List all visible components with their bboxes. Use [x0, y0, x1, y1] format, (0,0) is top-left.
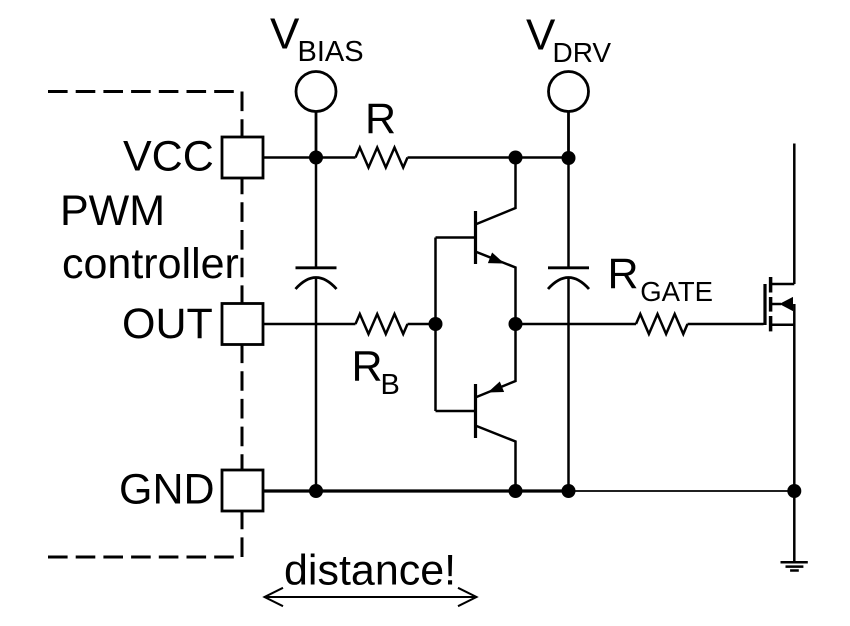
mosfet M1 body lead	[771, 303, 781, 306]
node dot VDRV rail	[562, 151, 576, 165]
capacitor C2	[548, 268, 589, 289]
resistor R	[356, 148, 408, 168]
svg-text:PWM: PWM	[60, 187, 165, 235]
transistor Q1 emitter arrow	[489, 253, 503, 263]
resistor RGATE	[636, 314, 688, 334]
wire GND rail thin	[569, 490, 795, 492]
wire driver output	[516, 323, 637, 326]
mosfet M1 source connector	[771, 324, 794, 327]
wire OUT rail	[263, 323, 356, 326]
distance arrow	[264, 588, 477, 606]
wire base bus	[436, 238, 476, 412]
wire VBIAS stem	[315, 112, 318, 158]
svg-text:DRV: DRV	[553, 37, 612, 68]
wire source	[793, 304, 796, 491]
svg-text:V: V	[270, 10, 300, 59]
wire VBIAS cap top	[315, 158, 318, 268]
svg-text:BIAS: BIAS	[298, 36, 364, 68]
wire RB to base node	[408, 323, 437, 326]
wire RGATE to gate	[688, 323, 764, 326]
wire VDRV cap bottom	[567, 278, 570, 491]
mosfet M1 body arrow	[781, 298, 793, 311]
svg-text:controller: controller	[62, 240, 239, 288]
svg-text:R: R	[608, 250, 639, 298]
svg-text:GATE: GATE	[640, 276, 713, 307]
transistor Q2 emitter	[477, 324, 516, 397]
transistor Q2 emitter arrow	[489, 382, 503, 392]
pin GND square	[222, 470, 263, 511]
node dot GND cap1	[309, 484, 323, 498]
pin OUT square	[222, 304, 263, 345]
svg-text:distance!: distance!	[284, 547, 456, 595]
node dot GND cap2	[562, 484, 576, 498]
transistor Q1 collector	[477, 158, 516, 225]
wire VCC rail right	[408, 156, 569, 159]
svg-text:R: R	[352, 343, 383, 391]
node dot GND collector	[509, 484, 523, 498]
node dot VBIAS/VCC	[309, 151, 323, 165]
mosfet M1 gate bar	[763, 284, 766, 325]
transistor Q2 collector	[477, 426, 516, 491]
wire VCC rail left	[263, 156, 356, 159]
node dot collector rail	[509, 151, 523, 165]
pin VCC square	[222, 137, 263, 178]
svg-text:V: V	[526, 11, 556, 60]
node dot emitters	[509, 317, 523, 331]
PWM controller dashed box	[48, 92, 242, 558]
svg-text:OUT: OUT	[122, 300, 213, 348]
wire to ground symbol	[793, 491, 796, 562]
resistor RB	[356, 314, 408, 334]
capacitor C1	[296, 268, 337, 289]
svg-text:R: R	[365, 95, 396, 143]
node dot GND source	[787, 484, 801, 498]
mosfet M1 channel segments	[769, 277, 773, 331]
wire VDRV cap top	[567, 158, 570, 267]
transistor Q1 emitter	[477, 252, 516, 324]
wire VDRV stem	[567, 112, 570, 158]
svg-text:VCC: VCC	[123, 133, 214, 181]
transistor Q2 PNP bar	[474, 384, 477, 438]
node dot base	[429, 317, 443, 331]
supply VDRV circle	[549, 72, 589, 112]
mosfet M1 drain connector	[771, 283, 794, 286]
svg-text:GND: GND	[119, 466, 215, 514]
transistor Q1 NPN bar	[474, 211, 477, 264]
svg-text:B: B	[381, 369, 400, 401]
wire VBIAS cap bottom	[315, 278, 318, 491]
supply VBIAS circle	[296, 72, 336, 112]
wire drain	[793, 144, 796, 285]
ground	[781, 562, 808, 570]
wire GND rail thick	[263, 489, 569, 492]
